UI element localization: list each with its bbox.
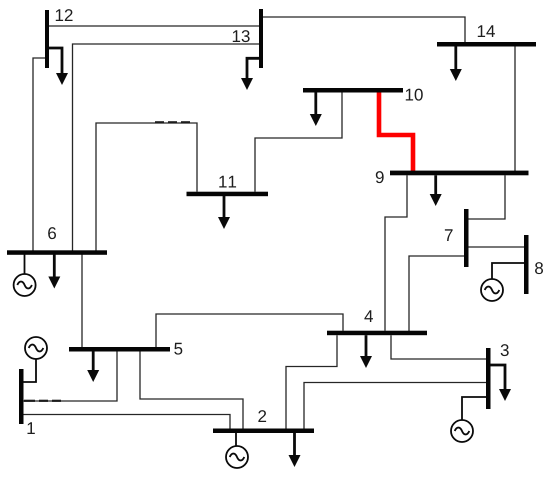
label bus 14 bbox=[478, 25, 495, 37]
bus 14 bbox=[437, 42, 536, 47]
label bus 6 bbox=[48, 227, 56, 239]
load at bus 10 bbox=[310, 92, 322, 126]
load at bus 9 bbox=[430, 175, 442, 206]
wire line 1-5 bbox=[23, 351, 117, 401]
bus 13 bbox=[259, 9, 263, 68]
wire line 6-11 bbox=[96, 123, 197, 251]
load at bus 2 bbox=[289, 433, 301, 467]
label bus 5 bbox=[174, 343, 182, 355]
wire line 4-7 bbox=[409, 256, 464, 331]
label bus 10 bbox=[406, 89, 423, 101]
bus 5 bbox=[69, 347, 170, 352]
wire line 7-8 bbox=[468, 246, 524, 248]
wire line 10-11 bbox=[255, 92, 342, 192]
tick marks on line 1-5 bbox=[24, 400, 61, 402]
generator G1 at bus 1 bbox=[23, 337, 47, 382]
wire line 4-5 bbox=[156, 314, 343, 347]
bus 11 bbox=[187, 192, 269, 197]
load at bus 5 bbox=[87, 351, 99, 382]
wire line 7-9 bbox=[468, 175, 505, 219]
load at bus 12 bbox=[49, 48, 68, 85]
generator G6 at bus 6 bbox=[14, 254, 36, 296]
wire line 6-12 bbox=[33, 58, 45, 251]
bus 10 bbox=[303, 88, 403, 93]
bus 7 bbox=[464, 209, 469, 267]
generator G8 at bus 8 bbox=[481, 263, 524, 301]
wire line 1-2 bbox=[23, 415, 230, 429]
load at bus 6 bbox=[48, 254, 60, 289]
label bus 9 bbox=[376, 171, 384, 183]
label bus 3 bbox=[501, 344, 509, 356]
wire line 6-13 bbox=[73, 44, 260, 251]
label bus 7 bbox=[445, 229, 453, 241]
bus 6 bbox=[7, 250, 107, 255]
wire line 2-3 bbox=[304, 383, 486, 429]
load at bus 11 bbox=[218, 196, 230, 229]
bus 9 bbox=[390, 171, 529, 176]
label bus 1 bbox=[27, 422, 34, 434]
bus 12 bbox=[45, 10, 49, 68]
wire line 13-14 bbox=[263, 17, 465, 42]
load at bus 4 bbox=[360, 335, 372, 368]
label bus 8 bbox=[535, 262, 543, 274]
label bus 13 bbox=[233, 30, 250, 42]
wire line 2-5 bbox=[140, 351, 243, 429]
wire line 4-9 bbox=[385, 175, 407, 330]
generator G3 at bus 3 bbox=[451, 397, 486, 442]
wire line 9-14 bbox=[514, 46, 516, 172]
label bus 12 bbox=[56, 9, 73, 21]
wire line 9-10 highlighted red bbox=[379, 90, 413, 173]
bus 3 bbox=[486, 348, 491, 409]
tick marks on line 6-11 bbox=[155, 121, 190, 123]
label bus 2 bbox=[258, 410, 266, 422]
load at bus 14 bbox=[450, 46, 462, 81]
wire line 12-13 bbox=[49, 25, 259, 27]
label bus 4 bbox=[364, 310, 373, 322]
bus 4 bbox=[327, 331, 427, 336]
bus 1 bbox=[19, 369, 24, 424]
wire line 5-6 bbox=[81, 254, 83, 347]
wire line 3-4 bbox=[391, 335, 486, 359]
generator G2 at bus 2 bbox=[226, 433, 248, 468]
bus 8 bbox=[524, 235, 529, 294]
bus 2 bbox=[213, 429, 314, 434]
label bus 11 bbox=[219, 176, 236, 188]
load at bus 3 bbox=[490, 365, 511, 401]
wire line 2-4 bbox=[286, 335, 337, 428]
load at bus 13 bbox=[241, 58, 259, 90]
